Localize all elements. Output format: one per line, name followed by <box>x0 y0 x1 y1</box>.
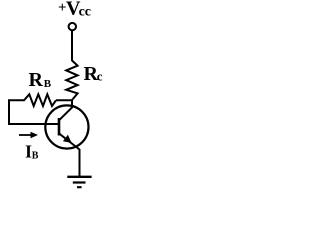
terminal Vcc <box>69 23 76 30</box>
svg-text:R: R <box>29 69 44 91</box>
wire emitter to ground <box>79 149 81 177</box>
transistor Q1 circle <box>45 105 88 148</box>
label RC <box>84 63 103 85</box>
transistor Q1 base bar <box>58 118 61 136</box>
svg-text:c: c <box>97 69 103 84</box>
svg-text:cc: cc <box>79 5 91 20</box>
label IB <box>25 142 39 162</box>
ground <box>67 177 91 187</box>
transistor Q1 emitter with arrow <box>60 134 80 150</box>
power label +Vcc <box>58 0 91 20</box>
svg-text:B: B <box>32 151 39 162</box>
wire feedback from collector node to RB <box>56 99 73 101</box>
wire left rail <box>9 100 59 124</box>
wire collector node to transistor <box>60 100 73 120</box>
resistor RB <box>24 94 56 106</box>
resistor RC <box>66 61 77 101</box>
wire Vcc terminal to RC <box>71 31 73 61</box>
label RB <box>29 69 52 91</box>
arrow IB <box>19 132 38 138</box>
svg-text:B: B <box>44 78 52 90</box>
